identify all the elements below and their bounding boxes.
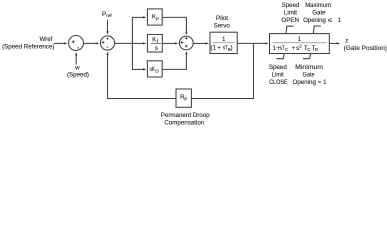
- svg-text:≤: ≤: [328, 17, 333, 24]
- leader speed limit open: [286, 26, 294, 33]
- wire gate servo output to z: [329, 42, 340, 44]
- label Pref: [102, 11, 112, 18]
- wire S1 to summer S2: [84, 42, 100, 44]
- block KD derivative gain sKD: [147, 61, 162, 77]
- node droop tap vertical: [253, 43, 255, 99]
- wire branch vertical: [131, 17, 133, 70]
- block RP permanent droop: [176, 89, 191, 107]
- wire KD output to summer S3: [162, 51, 187, 69]
- svg-text:Speed: Speed: [269, 64, 287, 71]
- label Pilot Servo: [214, 15, 231, 29]
- leader maximum gate: [313, 26, 321, 33]
- wire S3 to pilot servo: [193, 42, 209, 44]
- svg-text:D: D: [155, 69, 159, 75]
- svg-text:Servo: Servo: [214, 22, 231, 29]
- svg-text:I: I: [157, 39, 158, 45]
- svg-text:): ): [231, 44, 233, 51]
- svg-text:(Gate Position): (Gate Position): [344, 45, 387, 52]
- svg-text:Speed: Speed: [282, 2, 300, 9]
- block gate servo 1/(1+sTC+s2 TC TD): [270, 34, 330, 54]
- svg-text:P: P: [184, 97, 187, 102]
- svg-text:OPEN: OPEN: [281, 17, 299, 24]
- label speed limit close: [269, 64, 288, 86]
- svg-text:Minimum: Minimum: [295, 64, 323, 71]
- wire KI output to summer S3: [162, 42, 178, 44]
- svg-text:Pilot: Pilot: [216, 15, 228, 22]
- wire Pref input to S2: [106, 20, 108, 35]
- svg-text:1: 1: [298, 36, 302, 43]
- label maximum gate opening: [303, 2, 341, 24]
- svg-text:Limit: Limit: [284, 10, 297, 17]
- wire branch to block KD: [132, 68, 146, 70]
- wire w input to S1: [75, 52, 77, 64]
- label w (Speed): [67, 65, 89, 79]
- svg-text:Gate: Gate: [303, 72, 316, 79]
- svg-text:Gate: Gate: [312, 10, 326, 17]
- svg-text:+: +: [292, 45, 296, 52]
- leader speed limit close: [277, 54, 285, 59]
- leader minimum gate: [303, 54, 311, 59]
- svg-text:(Speed Reference): (Speed Reference): [2, 43, 54, 50]
- svg-text:Permanent Droop: Permanent Droop: [161, 112, 210, 119]
- summing junction S1: [69, 36, 84, 51]
- svg-text:Wref: Wref: [39, 36, 52, 43]
- svg-text:Opening: Opening: [293, 79, 317, 86]
- label z (Gate Position): [344, 37, 387, 52]
- label speed limit open: [281, 2, 300, 24]
- block KP proportional gain: [147, 9, 162, 25]
- svg-text:+: +: [217, 44, 221, 51]
- svg-text:1: 1: [222, 36, 226, 43]
- block KI integral gain KI/s: [147, 35, 162, 53]
- wire branch to block KI: [132, 42, 146, 44]
- svg-text:P: P: [156, 16, 159, 22]
- wire branch to block KP: [132, 16, 146, 18]
- svg-text:z: z: [345, 37, 348, 44]
- summing junction S3: [179, 36, 193, 50]
- wire S2 to branch node: [115, 42, 133, 44]
- svg-text:Maximum: Maximum: [305, 2, 331, 9]
- summing junction S2: [100, 36, 114, 50]
- wire droop feedback horizontal left: [107, 98, 176, 100]
- svg-text:(1: (1: [211, 44, 217, 51]
- svg-text:w: w: [74, 65, 80, 72]
- block pilot servo 1/(1+sTB): [210, 32, 237, 53]
- label minimum gate opening: [293, 64, 328, 86]
- wire droop feedback vertical to S2: [106, 52, 108, 99]
- svg-text:Limit: Limit: [272, 72, 284, 79]
- svg-text:(Speed): (Speed): [67, 72, 89, 79]
- svg-text:s: s: [155, 45, 158, 52]
- wire droop feedback horizontal right: [191, 98, 254, 100]
- wire pilot servo to gate servo: [237, 42, 268, 44]
- svg-text:1: 1: [323, 79, 327, 86]
- label permanent droop compensation: [161, 112, 210, 127]
- wire Wref input to summer S1: [54, 42, 67, 44]
- svg-text:Opening: Opening: [303, 17, 326, 24]
- svg-text:2: 2: [299, 44, 302, 49]
- svg-text:Compensation: Compensation: [164, 119, 204, 126]
- wire KP output to summer S3: [162, 17, 187, 35]
- label Wref (Speed Reference): [2, 36, 54, 50]
- svg-text:1: 1: [338, 17, 342, 24]
- svg-text:CLOSE: CLOSE: [269, 79, 288, 86]
- svg-text:ref: ref: [106, 13, 112, 18]
- svg-text:=: =: [318, 79, 322, 86]
